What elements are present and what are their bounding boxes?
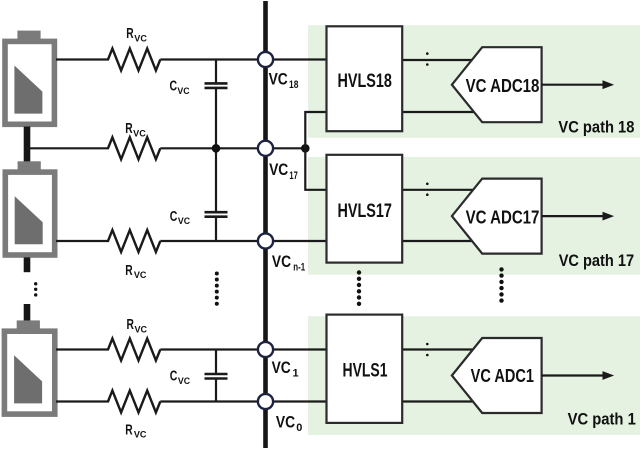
- wire HVLS17 to ADC17 lower: [402, 240, 478, 242]
- green highlight box VC path 1: [308, 316, 640, 435]
- battery cell B1: [2, 31, 57, 128]
- node VCn-1: [258, 233, 273, 248]
- svg-text:R: R: [125, 121, 133, 137]
- wire row5 resistor to HVLS1: [160, 400, 326, 402]
- svg-text:HVLS1: HVLS1: [343, 360, 388, 381]
- svg-text:VC: VC: [133, 129, 146, 139]
- svg-text:VC ADC17: VC ADC17: [466, 207, 540, 227]
- ADC pentagon VC ADC18: [452, 47, 542, 122]
- svg-text:VC: VC: [134, 430, 147, 440]
- svg-text:C: C: [170, 369, 178, 385]
- wire row2 battery bar to resistor: [26, 147, 109, 149]
- green highlight box VC path 17: [308, 157, 640, 275]
- junction dot right of VC17: [301, 144, 310, 153]
- svg-text:VC: VC: [178, 376, 191, 386]
- node VC17: [258, 141, 273, 156]
- capacitor C_VC A: [205, 60, 228, 149]
- svg-text:VC path 17: VC path 17: [559, 251, 634, 270]
- wire row3 battery B2 to resistor: [56, 240, 109, 242]
- resistor R_VC row2: [108, 137, 160, 159]
- wire HVLS17 to ADC17 upper: [402, 189, 478, 191]
- svg-text:17: 17: [289, 170, 297, 182]
- junction dot cap A row2: [212, 144, 221, 153]
- svg-text:VC: VC: [276, 412, 295, 431]
- svg-text:R: R: [125, 422, 133, 438]
- wire row3 resistor to HVLS17: [160, 240, 326, 242]
- node VC1: [258, 342, 273, 357]
- output arrow path1: [542, 371, 615, 380]
- wire HVLS18 to ADC18 lower: [402, 111, 478, 113]
- resistor R_VC row5: [108, 391, 160, 413]
- svg-text:n-1: n-1: [293, 261, 305, 273]
- resistor R_VC row3: [108, 230, 160, 252]
- battery column ellipsis: [34, 282, 37, 297]
- svg-text:VC: VC: [177, 86, 190, 96]
- wire row1 resistor to HVLS18: [160, 58, 326, 60]
- output arrow path18: [542, 80, 615, 89]
- resistor R_VC row4: [108, 339, 160, 361]
- colon ellipsis path18: [426, 52, 429, 66]
- svg-text:VC path 18: VC path 18: [558, 118, 634, 137]
- svg-text:R: R: [125, 263, 133, 279]
- svg-text:1: 1: [293, 368, 299, 380]
- svg-text:VC ADC1: VC ADC1: [471, 366, 534, 386]
- ADC pentagon VC ADC17: [452, 179, 542, 254]
- output arrow path17: [542, 212, 615, 221]
- HVLS column ellipsis: [357, 270, 361, 306]
- wire HVLS1 to ADC1 upper: [402, 348, 478, 350]
- svg-text:VC: VC: [135, 324, 148, 334]
- battery interconnect bar B1-B2: [24, 127, 31, 162]
- wire junction down to HVLS17 upper pin: [305, 148, 326, 190]
- svg-text:VC: VC: [269, 69, 288, 88]
- svg-text:18: 18: [289, 79, 298, 91]
- svg-text:VC: VC: [134, 34, 147, 44]
- vertical bus: [263, 1, 268, 448]
- svg-text:R: R: [127, 317, 135, 333]
- battery interconnect bar above B3: [24, 304, 31, 321]
- capacitor C_VC B: [205, 148, 228, 241]
- svg-text:VC: VC: [178, 216, 191, 226]
- svg-text:HVLS17: HVLS17: [338, 201, 392, 222]
- block HVLS18: [327, 26, 403, 131]
- svg-text:VC: VC: [272, 358, 291, 377]
- wire junction up to HVLS18 lower pin: [305, 112, 326, 148]
- svg-text:VC: VC: [272, 252, 291, 271]
- wire row4 resistor to HVLS1: [160, 348, 326, 350]
- battery interconnect bar below B2: [24, 257, 31, 272]
- svg-text:HVLS18: HVLS18: [338, 71, 392, 92]
- block HVLS17: [327, 155, 403, 263]
- wire row5 battery B3 to resistor: [56, 400, 109, 402]
- wire row4 battery B3 to resistor: [56, 348, 109, 350]
- node VC18: [258, 52, 273, 67]
- svg-text:VC: VC: [269, 160, 288, 179]
- middle column ellipsis: [215, 272, 219, 306]
- svg-text:VC: VC: [134, 270, 147, 280]
- svg-text:VC ADC18: VC ADC18: [466, 76, 540, 96]
- battery cell B2: [3, 161, 58, 257]
- colon ellipsis path1: [426, 343, 429, 357]
- svg-text:R: R: [126, 26, 134, 42]
- resistor R_VC row1: [108, 49, 160, 71]
- ADC pentagon VC ADC1: [452, 338, 542, 413]
- wire HVLS18 to ADC18 upper: [402, 59, 478, 61]
- svg-text:C: C: [170, 79, 178, 95]
- svg-text:0: 0: [296, 422, 302, 434]
- ADC column ellipsis: [499, 267, 503, 303]
- wire row1 battery B1 to resistor: [56, 58, 109, 60]
- block HVLS1: [327, 315, 403, 423]
- svg-text:VC path 1: VC path 1: [568, 410, 636, 429]
- node VC0: [258, 394, 273, 409]
- svg-text:C: C: [170, 209, 178, 225]
- colon ellipsis path17: [426, 183, 429, 197]
- wire row2 resistor to junction: [160, 147, 306, 149]
- green highlight box VC path 18: [308, 25, 640, 138]
- capacitor C_VC C: [205, 350, 228, 402]
- battery cell B3: [2, 320, 58, 417]
- wire HVLS1 to ADC1 lower: [402, 400, 478, 402]
